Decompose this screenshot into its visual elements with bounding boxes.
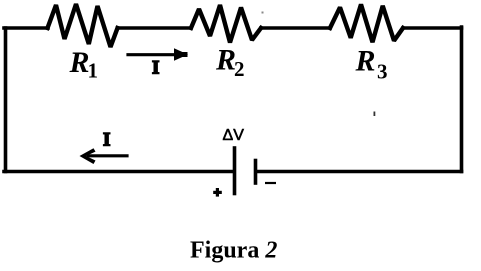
svg-text:I: I [103, 130, 110, 151]
svg-text:ΔV: ΔV [223, 127, 245, 144]
svg-text:3: 3 [377, 60, 388, 84]
svg-text:2: 2 [234, 57, 245, 81]
svg-text:Figura 2: Figura 2 [190, 238, 277, 264]
svg-text:R: R [355, 45, 376, 78]
svg-text:R: R [215, 44, 236, 77]
svg-text:R: R [69, 46, 90, 79]
svg-text:1: 1 [88, 59, 99, 83]
svg-text:I: I [152, 57, 159, 78]
